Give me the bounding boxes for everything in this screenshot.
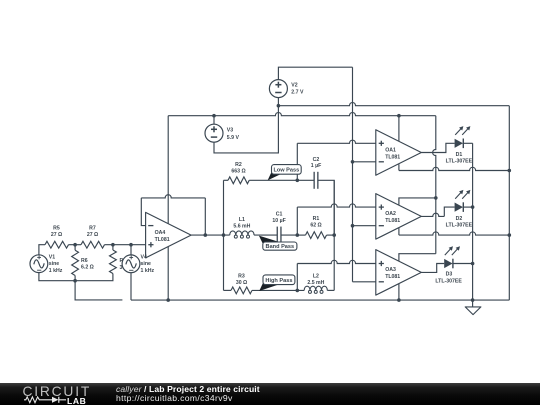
svg-text:62 Ω: 62 Ω: [310, 223, 321, 229]
svg-text:D1: D1: [456, 152, 463, 158]
svg-text:High Pass: High Pass: [265, 278, 292, 284]
svg-text:D2: D2: [456, 216, 463, 222]
svg-text:TL081: TL081: [385, 218, 400, 224]
svg-text:2.7 V: 2.7 V: [291, 90, 304, 96]
svg-text:1 µF: 1 µF: [311, 163, 321, 169]
svg-text:OA2: OA2: [385, 211, 396, 217]
svg-text:R6: R6: [81, 258, 88, 264]
svg-text:V3: V3: [227, 128, 233, 134]
svg-text:Low Pass: Low Pass: [273, 167, 299, 173]
svg-text:sine: sine: [141, 261, 151, 267]
svg-text:D3: D3: [446, 272, 453, 278]
svg-text:30 Ω: 30 Ω: [236, 280, 247, 286]
svg-text:L2: L2: [313, 274, 319, 280]
svg-text:R5: R5: [53, 226, 60, 232]
svg-text:R2: R2: [235, 162, 242, 168]
svg-text:Band Pass: Band Pass: [266, 244, 295, 250]
svg-text:TL081: TL081: [385, 274, 400, 280]
svg-text:C1: C1: [276, 212, 283, 218]
svg-text:L1: L1: [239, 217, 245, 223]
svg-text:R1: R1: [313, 216, 320, 222]
svg-text:OA3: OA3: [385, 267, 396, 273]
svg-text:OA4: OA4: [155, 230, 166, 236]
svg-text:27 Ω: 27 Ω: [51, 232, 62, 238]
svg-text:R7: R7: [89, 226, 96, 232]
svg-text:LTL-307EE: LTL-307EE: [446, 223, 473, 229]
svg-text:2.5 mH: 2.5 mH: [307, 280, 324, 286]
svg-text:LTL-307EE: LTL-307EE: [446, 159, 473, 165]
svg-text:1 kHz: 1 kHz: [141, 268, 155, 274]
svg-text:TL081: TL081: [385, 154, 400, 160]
svg-text:6.2 Ω: 6.2 Ω: [81, 265, 94, 271]
svg-text:663 Ω: 663 Ω: [231, 169, 245, 175]
svg-text:LTL-307EE: LTL-307EE: [435, 278, 462, 284]
svg-text:5.6 mH: 5.6 mH: [233, 223, 250, 229]
svg-text:OA1: OA1: [385, 147, 396, 153]
svg-text:27 Ω: 27 Ω: [87, 232, 98, 238]
svg-text:sine: sine: [49, 261, 59, 267]
svg-text:10 µF: 10 µF: [272, 218, 285, 224]
svg-text:1 kHz: 1 kHz: [49, 268, 63, 274]
svg-text:V2: V2: [291, 82, 297, 88]
svg-text:V1: V1: [49, 255, 55, 261]
svg-text:TL081: TL081: [155, 237, 170, 243]
svg-text:R3: R3: [238, 274, 245, 280]
svg-text:V4: V4: [141, 255, 147, 261]
svg-text:5.9 V: 5.9 V: [227, 135, 240, 141]
